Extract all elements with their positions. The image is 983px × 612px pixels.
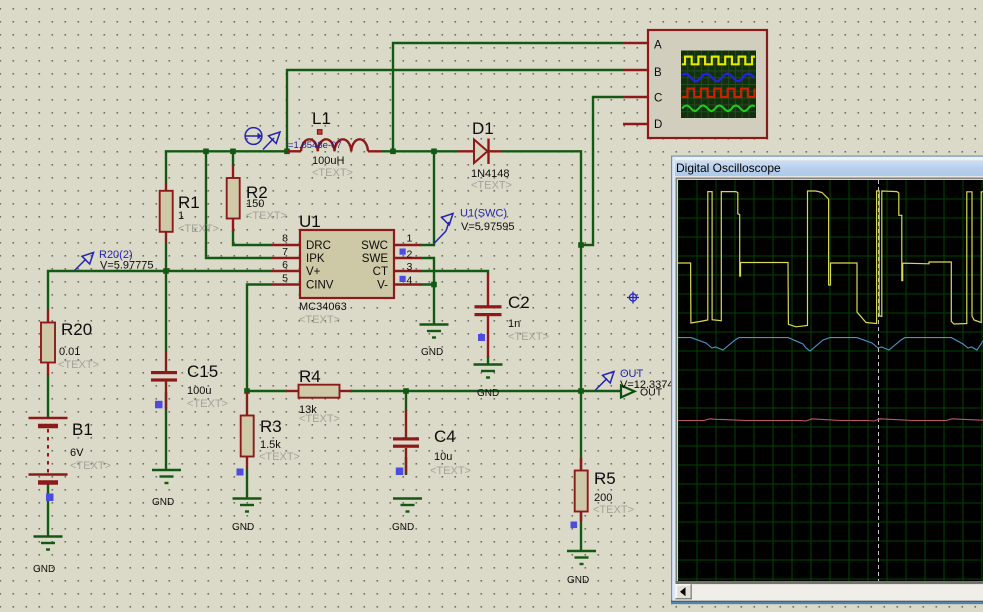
wire L1 to D1 — [381, 150, 458, 152]
svg-text:V-: V- — [377, 280, 388, 292]
svg-text:<TEXT>: <TEXT> — [312, 167, 353, 179]
svg-text:<TEXT>: <TEXT> — [246, 210, 287, 222]
wire U1 pin2 SWE down to pin4 — [420, 258, 434, 285]
wire R1 bottom — [165, 243, 167, 271]
logic state square C2 — [478, 334, 485, 341]
screen frame — [676, 178, 983, 583]
wire R5 top — [580, 392, 582, 471]
svg-text:R20: R20 — [61, 320, 92, 339]
svg-text:=1.8548e-07: =1.8548e-07 — [288, 140, 342, 151]
svg-text:V=12.3374: V=12.3374 — [620, 379, 674, 391]
resistor R4 — [286, 367, 352, 425]
wire battery to gnd — [47, 484, 49, 536]
svg-text:5: 5 — [282, 273, 288, 285]
inductor L1 — [288, 109, 381, 179]
ground B1 — [34, 537, 63, 550]
wire U1 pin1 SWC up to rail — [420, 151, 434, 245]
wire D1 cathode to corner — [502, 151, 581, 392]
resistor R1 — [160, 183, 219, 243]
wire R2 top — [232, 151, 234, 166]
svg-text:GND: GND — [421, 347, 443, 358]
svg-text:B: B — [654, 67, 662, 79]
ground U1 pin4 — [420, 325, 449, 338]
capacitor C15 — [151, 352, 228, 410]
svg-text:L1: L1 — [312, 109, 331, 128]
wire main rail left — [166, 151, 290, 152]
trace channel C red — [677, 419, 983, 421]
wire U1 pin5 CINV down — [247, 285, 271, 393]
svg-text:C4: C4 — [434, 427, 456, 446]
wire scope A — [393, 43, 623, 151]
scrollbar — [676, 581, 983, 584]
svg-text:1n: 1n — [508, 318, 520, 330]
svg-text:2: 2 — [407, 249, 413, 261]
resistor R3 — [237, 392, 300, 476]
node junction rail-SWC — [431, 149, 437, 155]
svg-text:7: 7 — [282, 246, 288, 258]
logic state square B1 — [46, 494, 54, 502]
wire U1 pin3 CT to C2 — [420, 271, 488, 274]
ground C15 — [152, 470, 181, 483]
svg-text:GND: GND — [567, 575, 589, 586]
trace channel A yellow — [677, 191, 983, 327]
cursor line — [878, 180, 880, 581]
logic state square C15 — [155, 401, 163, 409]
wire V+ rail — [48, 271, 271, 310]
wire C2 bottom to gnd — [487, 356, 489, 365]
wire C4 bottom to gnd — [405, 457, 407, 475]
svg-text:<TEXT>: <TEXT> — [187, 398, 228, 410]
logic state square pin2 — [400, 249, 406, 255]
svg-text:V+: V+ — [306, 266, 321, 278]
ground R5 — [567, 551, 596, 564]
ground C4 — [393, 499, 422, 512]
svg-text:150: 150 — [246, 198, 264, 210]
logic state square C4 — [396, 468, 404, 476]
trace channel B blue — [677, 338, 983, 351]
logic state square R3 — [237, 469, 244, 476]
svg-text:6: 6 — [282, 259, 288, 271]
svg-text:D1: D1 — [472, 119, 494, 138]
scope graticule — [678, 180, 983, 581]
svg-text:1: 1 — [407, 233, 413, 245]
wire C15 bottom to gnd — [165, 392, 167, 470]
current probe on L1 wire — [245, 128, 280, 150]
pin B — [623, 69, 649, 71]
svg-text:DRC: DRC — [306, 240, 331, 252]
node junction V+ R1/C15 — [163, 268, 169, 274]
wire rail to U1 pin7 IPK — [206, 151, 271, 258]
svg-text:10u: 10u — [434, 451, 452, 463]
oscilloscope component — [623, 30, 767, 138]
wire C4 top — [405, 391, 407, 411]
title bar — [0, 0, 1, 1]
wire R20 to battery — [47, 374, 49, 417]
svg-text:100u: 100u — [187, 385, 211, 397]
terminal OUT — [621, 386, 663, 399]
svg-text:1: 1 — [178, 210, 184, 222]
voltage probe U1(SWC) — [434, 214, 453, 244]
svg-text:<TEXT>: <TEXT> — [593, 504, 634, 516]
preview trace A yellow — [682, 57, 755, 65]
svg-text:<TEXT>: <TEXT> — [430, 465, 471, 477]
preview trace C red — [682, 89, 755, 97]
node junction SWE/V- — [431, 282, 437, 288]
svg-text:4: 4 — [407, 275, 413, 287]
wire scope C — [581, 97, 623, 245]
svg-text:C15: C15 — [187, 362, 218, 381]
wire R3 bottom to gnd — [246, 470, 248, 498]
svg-text:200: 200 — [594, 492, 612, 504]
window bottom edge — [671, 601, 983, 602]
voltage probe OUT — [595, 372, 614, 391]
pin A — [623, 42, 649, 44]
svg-text:<TEXT>: <TEXT> — [58, 359, 99, 371]
scope preview screen — [681, 51, 756, 119]
node junction R4 left — [244, 388, 250, 394]
svg-text:<TEXT>: <TEXT> — [471, 180, 512, 192]
svg-text:IPK: IPK — [306, 253, 325, 265]
svg-text:U1(SWC): U1(SWC) — [460, 208, 507, 220]
svg-text:B1: B1 — [72, 420, 93, 439]
svg-text:0.01: 0.01 — [59, 346, 80, 358]
svg-text:R4: R4 — [299, 367, 321, 386]
screen — [678, 180, 983, 581]
capacitor C4 — [393, 410, 471, 477]
node junction OUT — [578, 388, 584, 394]
svg-text:100uH: 100uH — [312, 155, 344, 167]
node junction rail-A — [390, 149, 396, 155]
node junction rail-R2 — [230, 149, 236, 155]
logic state square R5 — [571, 522, 578, 529]
svg-text:GND: GND — [477, 388, 499, 399]
wire R4 row to OUT — [247, 390, 287, 392]
svg-text:<TEXT>: <TEXT> — [70, 460, 111, 472]
svg-text:A: A — [654, 40, 662, 52]
capacitor C2 — [475, 273, 549, 357]
svg-text:V=5.97775: V=5.97775 — [100, 260, 154, 272]
node junction C-wire — [578, 242, 584, 248]
svg-text:6V: 6V — [70, 447, 84, 459]
svg-text:GND: GND — [33, 564, 55, 575]
svg-text:1N4148: 1N4148 — [471, 168, 510, 180]
voltage probe R20(2) — [75, 253, 94, 271]
svg-text:GND: GND — [392, 522, 414, 533]
svg-text:GND: GND — [232, 522, 254, 533]
svg-text:SWE: SWE — [362, 253, 389, 265]
node junction rail-IPK — [203, 149, 209, 155]
svg-text:GND: GND — [152, 497, 174, 508]
pin C — [623, 96, 649, 98]
svg-text:<TEXT>: <TEXT> — [178, 223, 219, 235]
node junction C4 — [403, 388, 409, 394]
svg-text:<TEXT>: <TEXT> — [508, 331, 549, 343]
svg-text:3: 3 — [407, 261, 413, 273]
battery B1 — [29, 418, 111, 501]
ground C2 — [474, 365, 503, 378]
svg-text:U1: U1 — [299, 212, 321, 231]
wire scope B — [287, 70, 623, 151]
wire C15 top — [165, 271, 167, 352]
wire R5 bottom to gnd — [580, 511, 582, 551]
svg-text:<TEXT>: <TEXT> — [299, 314, 340, 326]
svg-text:C: C — [654, 93, 662, 105]
wire R1 top — [165, 151, 167, 183]
svg-text:SWC: SWC — [361, 240, 388, 252]
node junction rail-B — [284, 149, 290, 155]
preview trace D green — [682, 105, 755, 111]
svg-text:8: 8 — [282, 233, 288, 245]
wire R2 bottom to pin8 — [233, 231, 271, 245]
svg-text:CINV: CINV — [306, 280, 334, 292]
pin D — [623, 123, 649, 125]
preview trace B blue — [682, 74, 754, 82]
svg-text:C2: C2 — [508, 293, 530, 312]
origin marker — [627, 292, 639, 304]
svg-text:<TEXT>: <TEXT> — [259, 451, 300, 463]
oscilloscope window Digital Oscilloscope — [671, 156, 983, 605]
logic state square pin4 — [400, 276, 406, 282]
IC U1 MC34063 — [271, 212, 421, 326]
resistor R2 — [227, 165, 287, 232]
svg-text:R3: R3 — [260, 417, 282, 436]
svg-text:Digital Oscilloscope: Digital Oscilloscope — [676, 161, 781, 175]
svg-text:CT: CT — [373, 266, 388, 278]
svg-text:V=5.97595: V=5.97595 — [461, 221, 515, 233]
svg-text:1.5k: 1.5k — [260, 439, 281, 451]
svg-text:R5: R5 — [594, 469, 616, 488]
svg-text:MC34063: MC34063 — [299, 301, 347, 313]
ground R3 — [233, 499, 262, 512]
resistor R5 — [571, 458, 634, 528]
diode D1 — [458, 119, 512, 192]
resistor R20 — [41, 310, 99, 375]
wire pin4 V- to gnd — [420, 285, 434, 325]
svg-text:<TEXT>: <TEXT> — [299, 413, 340, 425]
svg-text:D: D — [654, 119, 662, 131]
